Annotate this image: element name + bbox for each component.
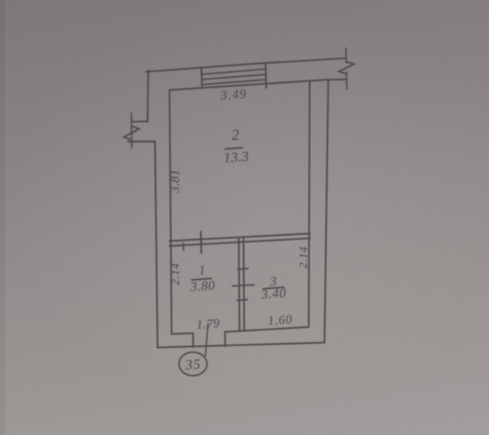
window middle line 2: [202, 75, 266, 80]
outer right wall: [325, 80, 329, 343]
left break zigzag: [124, 126, 139, 140]
room 1 fraction line: [191, 278, 212, 280]
door tick tall (room2-room1 opening right jamb): [200, 232, 203, 254]
middle wall line B (rooms 1/3 top): [170, 238, 311, 246]
window jamb left: [200, 68, 203, 86]
middle wall line A (room 2 bottom): [170, 234, 311, 242]
left paper edge shade: [0, 0, 5, 435]
entry door jamb right: [224, 332, 226, 346]
window jamb right: [265, 63, 268, 88]
outer left wall lower segment: [155, 141, 158, 347]
entry door jamb left: [192, 333, 194, 347]
door tick long (rooms 1-3): [233, 285, 255, 286]
outer left wall upper segment: [147, 71, 150, 122]
apartment number circle: [179, 352, 207, 376]
left break upper cap: [132, 120, 149, 122]
inner right wall (rooms 2 and 3): [309, 80, 310, 326]
window sill line: [202, 80, 266, 85]
door tick small (room2-room1 opening left jamb): [182, 243, 184, 251]
right break tick lower: [345, 72, 348, 89]
door mark upper (rooms 1-3): [238, 269, 249, 270]
outer bottom wall: [158, 343, 325, 348]
door mark lower (rooms 1-3): [237, 300, 248, 301]
room 2 fraction line: [225, 148, 243, 149]
wall between rooms 1 and 3, right line: [243, 238, 246, 329]
window middle line 1: [201, 69, 265, 74]
inner top wall (room 2 top, runs to outer right wall): [170, 80, 329, 90]
room 3 fraction line: [263, 287, 285, 288]
leader line to apartment number: [206, 324, 209, 356]
bottom wall right of door (rooms 1 and 3): [225, 327, 309, 332]
left break tick: [130, 113, 132, 148]
wall between rooms 1 and 3, left line: [238, 239, 241, 331]
room 1 bottom wall left of door: [172, 332, 193, 335]
right break zigzag: [339, 62, 354, 75]
left break lower cap: [128, 140, 155, 142]
inner left wall (rooms 2 and 1): [170, 90, 172, 334]
outer top wall: [146, 58, 346, 72]
right break tick upper: [345, 48, 347, 63]
right break lower cap: [328, 78, 347, 81]
